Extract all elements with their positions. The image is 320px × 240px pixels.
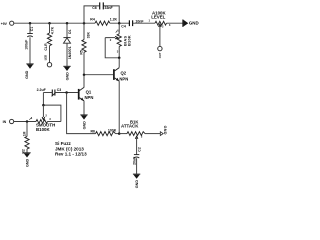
transistor Q2	[114, 58, 128, 82]
svg-text:C3: C3	[57, 88, 62, 92]
wire Q1 base node down to R6	[67, 93, 96, 134]
svg-text:100uF: 100uF	[24, 39, 28, 50]
ground (D1)	[63, 66, 70, 80]
svg-text:Q1: Q1	[86, 89, 92, 94]
wire smooth loop	[43, 93, 61, 122]
resistor R4 1.2K	[90, 18, 129, 26]
svg-text:C2: C2	[138, 147, 142, 152]
diode D1 1N4001	[63, 23, 72, 66]
svg-text:+9V: +9V	[1, 22, 8, 26]
svg-text:1M: 1M	[22, 131, 26, 136]
capacitor C3 2.2uF input	[37, 88, 78, 97]
potentiometer LEVEL A100K	[149, 10, 183, 46]
potentiometer ATTACK B1K	[119, 120, 160, 155]
capacitor C4	[121, 19, 155, 28]
resistor CLR 4.7K	[44, 23, 54, 62]
svg-text:1N4001: 1N4001	[68, 46, 72, 59]
svg-text:ATTACK: ATTACK	[121, 124, 139, 129]
svg-text:33K: 33K	[86, 32, 90, 39]
svg-text:NPN: NPN	[119, 77, 128, 82]
svg-text:GND: GND	[66, 72, 70, 81]
svg-text:B100K: B100K	[36, 127, 50, 132]
port OUT	[158, 46, 163, 58]
svg-text:GND: GND	[135, 180, 139, 189]
svg-text:C1: C1	[30, 27, 34, 32]
ground flag (top right)	[183, 20, 199, 27]
svg-text:D1: D1	[68, 29, 72, 34]
node bias/Q2 collector	[118, 57, 121, 60]
node rail-D1	[66, 22, 69, 25]
node Q2 emitter/R6/attack	[118, 132, 121, 135]
transistor Q1	[79, 75, 94, 115]
svg-text:Si Fuzz: Si Fuzz	[55, 141, 72, 146]
svg-text:Rev 1.1 - 12/13: Rev 1.1 - 12/13	[55, 151, 87, 156]
wire Q2 emitter to attack node	[118, 81, 120, 134]
svg-text:GND: GND	[163, 126, 167, 135]
capacitor C6 feedback loop	[84, 2, 119, 23]
node C3/Q1 base/R6	[65, 91, 68, 94]
svg-text:C6: C6	[92, 6, 97, 10]
capacitor C2 20uF	[133, 147, 142, 174]
wire Q2 base	[84, 74, 113, 76]
resistor R5 33K	[80, 23, 91, 75]
title block	[55, 141, 87, 156]
svg-text:NPN: NPN	[85, 95, 94, 100]
node rail-R5	[83, 22, 86, 25]
svg-text:LEVEL: LEVEL	[151, 15, 165, 20]
svg-text:GND: GND	[25, 158, 29, 167]
node smooth wiper	[42, 104, 45, 107]
ground (C1)	[25, 64, 34, 79]
node rail-CLR	[48, 22, 51, 25]
svg-text:R6: R6	[91, 129, 96, 133]
capacitor C1	[24, 23, 34, 63]
ground flag (attack)	[160, 126, 167, 136]
svg-text:GND: GND	[83, 121, 87, 130]
svg-text:1.2K: 1.2K	[110, 18, 118, 22]
svg-text:C4: C4	[121, 24, 126, 28]
port IN	[3, 119, 14, 124]
svg-text:IN: IN	[3, 120, 7, 124]
svg-text:B10K: B10K	[127, 35, 132, 46]
svg-text:Q2: Q2	[121, 70, 127, 75]
svg-text:GND: GND	[25, 70, 29, 79]
resistor R2 1M	[22, 122, 30, 154]
port LED	[44, 55, 52, 67]
svg-text:4.7K: 4.7K	[50, 26, 54, 34]
node R5/Q1 collector/Q2 base	[83, 73, 86, 76]
potentiometer SMOOTH B100K	[29, 116, 61, 132]
ground (C2)	[133, 174, 140, 188]
svg-text:2.2uF: 2.2uF	[37, 88, 47, 92]
node R4/C6/bias	[118, 22, 121, 25]
svg-text:CLR: CLR	[44, 43, 48, 51]
svg-text:R5: R5	[80, 50, 84, 55]
wiper smooth	[42, 105, 47, 120]
svg-text:OUT: OUT	[158, 52, 162, 58]
node input/R2	[26, 120, 29, 123]
resistor R6 100K	[91, 128, 120, 135]
node rail-C1	[29, 22, 32, 25]
ground (Q1 emitter)	[80, 115, 87, 129]
ground (R2)	[23, 153, 30, 167]
port +9V	[1, 21, 14, 26]
svg-text:20uF: 20uF	[133, 156, 137, 165]
wire input	[14, 121, 36, 123]
svg-text:R4: R4	[90, 18, 95, 22]
potentiometer BIAS B10K	[105, 23, 131, 58]
wire +9V rail	[14, 22, 95, 24]
svg-text:GND: GND	[189, 21, 199, 26]
svg-text:LED: LED	[44, 55, 48, 60]
svg-text:33nF: 33nF	[105, 6, 114, 10]
